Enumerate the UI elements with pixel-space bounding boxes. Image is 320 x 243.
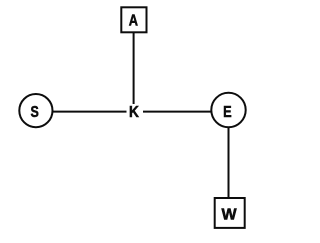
node E (211, 93, 245, 127)
wire S to K (53, 111, 127, 113)
svg-text:E: E (223, 104, 232, 122)
node S (19, 94, 52, 127)
node W (215, 198, 245, 228)
svg-text:S: S (31, 104, 39, 122)
wire K to E (143, 111, 211, 113)
wire E to W (228, 127, 230, 198)
svg-text:A: A (129, 12, 139, 30)
svg-text:W: W (221, 206, 237, 223)
svg-text:K: K (129, 103, 139, 121)
wire A to K (133, 33, 135, 104)
node A (121, 7, 146, 32)
